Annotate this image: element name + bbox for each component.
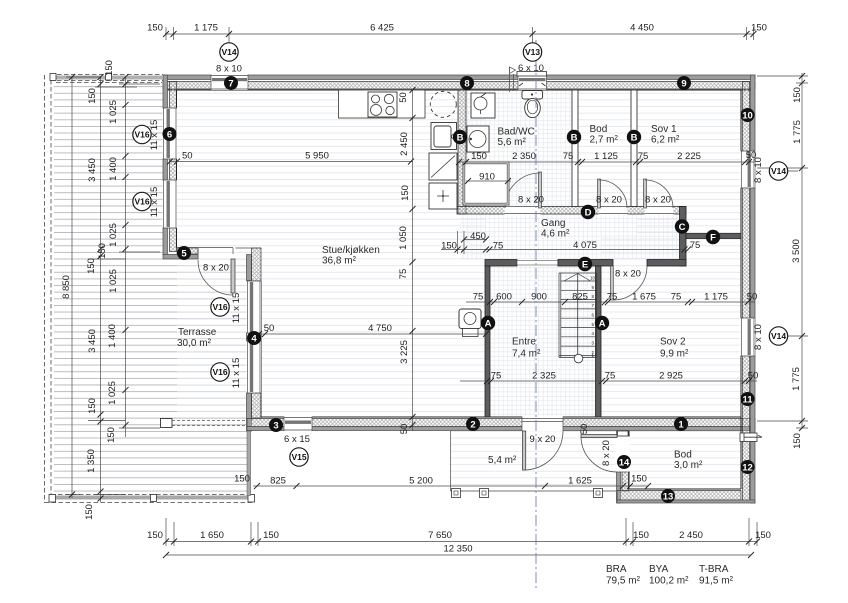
svg-text:Gang: Gang xyxy=(541,218,565,229)
svg-text:7: 7 xyxy=(228,79,233,90)
svg-text:75: 75 xyxy=(607,292,618,303)
svg-text:6 425: 6 425 xyxy=(370,23,394,34)
svg-text:V14: V14 xyxy=(771,331,786,341)
svg-text:50: 50 xyxy=(747,292,758,303)
bottom wall xyxy=(261,416,741,418)
svg-text:825: 825 xyxy=(270,476,286,487)
svg-text:150: 150 xyxy=(147,23,163,34)
svg-text:V14: V14 xyxy=(221,47,236,57)
svg-text:50: 50 xyxy=(748,371,759,382)
terrasse utility box + dashed line xyxy=(161,419,173,428)
svg-text:75: 75 xyxy=(491,371,502,382)
gang tiles xyxy=(460,214,679,259)
numbered markers xyxy=(163,76,755,503)
dashed sink circle xyxy=(430,91,456,117)
svg-text:V16: V16 xyxy=(134,130,149,140)
svg-text:10: 10 xyxy=(590,276,596,281)
svg-text:1 775: 1 775 xyxy=(792,120,803,144)
svg-text:3 450: 3 450 xyxy=(87,158,98,182)
svg-text:1 050: 1 050 xyxy=(398,226,409,250)
svg-text:7,4 m²: 7,4 m² xyxy=(512,349,541,360)
right wall window W2 (8x10) xyxy=(741,318,756,356)
bath basin top xyxy=(471,93,495,118)
toilet xyxy=(522,91,543,100)
svg-text:1: 1 xyxy=(678,420,684,431)
svg-text:3 450: 3 450 xyxy=(87,329,98,353)
svg-text:5,4 m²: 5,4 m² xyxy=(488,455,517,466)
bod2.7 door 8x20 xyxy=(598,179,601,208)
svg-text:2 925: 2 925 xyxy=(659,371,683,382)
svg-text:150: 150 xyxy=(792,433,803,449)
bod3 vent xyxy=(740,433,757,442)
svg-text:5: 5 xyxy=(181,249,187,260)
svg-text:1 400: 1 400 xyxy=(107,324,118,348)
WALLS xyxy=(45,74,756,504)
svg-text:A: A xyxy=(599,319,606,330)
FLOORS xyxy=(54,82,741,494)
svg-text:50: 50 xyxy=(398,92,409,103)
kitchen vertical column x412 xyxy=(412,90,414,431)
terrasse door 8x20 xyxy=(231,259,235,293)
svg-text:5,6 m²: 5,6 m² xyxy=(498,137,527,148)
svg-text:Sov 1: Sov 1 xyxy=(651,124,677,135)
svg-text:2: 2 xyxy=(470,420,475,431)
svg-text:BYA: BYA xyxy=(649,564,669,575)
IW5 gang east wall xyxy=(680,207,687,267)
svg-text:150: 150 xyxy=(234,474,250,485)
MARKERS xyxy=(133,43,788,503)
WINDOWS xyxy=(163,72,756,432)
svg-text:150: 150 xyxy=(84,504,95,520)
IW7 entre north / gang south wall xyxy=(485,260,517,267)
svg-text:8 x 20: 8 x 20 xyxy=(615,269,641,280)
letter markers xyxy=(453,130,720,330)
interior row: 50 | 5950 (y161.5) xyxy=(170,161,413,163)
svg-text:11 x 15: 11 x 15 xyxy=(231,293,242,323)
svg-text:1 350: 1 350 xyxy=(86,449,97,473)
svg-text:75: 75 xyxy=(690,240,701,251)
svg-text:1 650: 1 650 xyxy=(200,530,224,541)
svg-text:11: 11 xyxy=(742,395,753,406)
svg-text:Bod: Bod xyxy=(674,450,692,461)
svg-text:Stue/kjøkken: Stue/kjøkken xyxy=(322,245,380,256)
svg-text:V16: V16 xyxy=(212,367,227,377)
svg-text:75: 75 xyxy=(493,241,504,252)
window 7 top (8x10) xyxy=(211,75,248,91)
svg-text:600: 600 xyxy=(496,292,512,303)
svg-text:910: 910 xyxy=(479,172,495,183)
svg-text:6: 6 xyxy=(167,130,172,141)
svg-text:1 625: 1 625 xyxy=(568,476,592,487)
svg-text:Entre: Entre xyxy=(512,337,536,348)
terrasse deck upper xyxy=(54,82,163,259)
left 8850 column xyxy=(66,77,100,498)
corner piece at marker5 xyxy=(177,248,233,260)
svg-text:2 450: 2 450 xyxy=(679,530,703,541)
row y302 xyxy=(466,301,755,303)
svg-text:9,9 m²: 9,9 m² xyxy=(660,349,689,360)
svg-text:8: 8 xyxy=(464,79,469,90)
svg-text:75: 75 xyxy=(671,292,682,303)
IW6 sov1/sov2 wall xyxy=(686,234,741,239)
svg-text:V13: V13 xyxy=(525,47,540,57)
svg-text:5 950: 5 950 xyxy=(305,151,329,162)
svg-text:4 450: 4 450 xyxy=(630,23,654,34)
top wall xyxy=(163,75,755,80)
svg-text:150: 150 xyxy=(147,530,163,541)
bottom chain row2 xyxy=(166,554,751,556)
svg-text:1 175: 1 175 xyxy=(194,23,218,34)
west wall mullion xyxy=(247,333,262,341)
svg-text:9 x 20: 9 x 20 xyxy=(530,434,556,445)
svg-text:1 675: 1 675 xyxy=(632,292,656,303)
svg-text:V16: V16 xyxy=(212,302,227,312)
terrasse deck lower xyxy=(54,259,247,494)
row y334 xyxy=(259,333,486,335)
svg-text:75: 75 xyxy=(473,292,484,303)
svg-text:7 650: 7 650 xyxy=(428,530,452,541)
bod south wall xyxy=(629,488,741,490)
svg-text:2,7 m²: 2,7 m² xyxy=(590,135,619,146)
west wall bottom block xyxy=(247,393,252,431)
svg-text:150: 150 xyxy=(441,241,457,252)
right wall xyxy=(751,75,756,503)
svg-text:3 500: 3 500 xyxy=(791,239,802,263)
svg-text:91,5 m²: 91,5 m² xyxy=(699,576,734,587)
right wall window W1 (8x10) xyxy=(741,151,756,188)
svg-text:36,8 m²: 36,8 m² xyxy=(322,256,357,267)
stove xyxy=(368,92,397,117)
svg-text:V14: V14 xyxy=(771,166,786,176)
sov1 floor xyxy=(637,90,741,233)
bad/wc door 8x20 xyxy=(539,172,542,208)
svg-text:2 450: 2 450 xyxy=(399,132,410,156)
svg-text:150: 150 xyxy=(400,185,411,201)
svg-text:E: E xyxy=(582,260,588,271)
svg-text:8 x 20: 8 x 20 xyxy=(203,263,229,274)
sov2 floor xyxy=(601,238,741,417)
terrasse borders xyxy=(50,74,163,76)
svg-text:75: 75 xyxy=(605,371,616,382)
svg-text:Bad/WC: Bad/WC xyxy=(498,127,535,138)
stove (stue) xyxy=(459,309,481,329)
svg-text:75: 75 xyxy=(563,151,574,162)
IW4 bod2.7 east wall xyxy=(631,90,637,207)
svg-text:A: A xyxy=(485,319,492,330)
DOORS xyxy=(198,172,673,472)
porch floor xyxy=(450,431,616,491)
svg-text:6 x 10: 6 x 10 xyxy=(518,63,544,74)
west wall window W1 (11x15) xyxy=(247,281,262,333)
bod3 door 8x20 xyxy=(581,435,617,438)
FIXTURES xyxy=(339,67,763,442)
svg-text:1 125: 1 125 xyxy=(594,151,618,162)
svg-text:50: 50 xyxy=(182,151,193,162)
IW3 bad east wall xyxy=(572,90,578,207)
svg-text:5 200: 5 200 xyxy=(409,476,433,487)
kitchen counter top xyxy=(339,90,426,118)
svg-text:C: C xyxy=(679,222,686,233)
svg-text:50: 50 xyxy=(264,323,275,334)
bottom wall window V15 (6x15) xyxy=(284,417,312,432)
sov2 door 8x20 xyxy=(611,266,614,300)
porch outline xyxy=(451,431,617,491)
centerline xyxy=(535,40,537,590)
svg-text:Terrasse: Terrasse xyxy=(178,327,217,338)
washer xyxy=(467,126,489,152)
svg-text:8 x 20: 8 x 20 xyxy=(518,195,544,206)
svg-text:4 750: 4 750 xyxy=(368,323,392,334)
svg-text:1 025: 1 025 xyxy=(108,100,119,124)
svg-text:150: 150 xyxy=(755,530,771,541)
svg-text:150: 150 xyxy=(471,151,487,162)
IW8 entre west wall xyxy=(485,266,490,417)
IW2 gang north wall xyxy=(457,207,686,215)
svg-text:3,0 m²: 3,0 m² xyxy=(674,460,703,471)
svg-text:4: 4 xyxy=(251,334,257,345)
bottom wall porch door opening (9x20) xyxy=(522,417,563,432)
svg-text:1 025: 1 025 xyxy=(108,223,119,247)
svg-text:100,2 m²: 100,2 m² xyxy=(649,576,689,587)
porch door 9x20 xyxy=(523,431,526,470)
svg-text:3: 3 xyxy=(273,421,278,432)
top dimension chain xyxy=(165,27,754,43)
svg-text:8 850: 8 850 xyxy=(61,275,72,299)
svg-text:1 400: 1 400 xyxy=(108,157,119,181)
bottom chain row1 xyxy=(166,518,757,546)
svg-text:4 075: 4 075 xyxy=(573,240,597,251)
IW9 entre east wall xyxy=(596,266,602,417)
svg-text:T-BRA: T-BRA xyxy=(699,564,729,575)
svg-text:2 225: 2 225 xyxy=(677,151,701,162)
svg-text:150: 150 xyxy=(631,474,647,485)
bod 2.7 floor xyxy=(578,90,631,206)
svg-text:B: B xyxy=(571,133,578,144)
svg-text:150: 150 xyxy=(87,88,98,104)
svg-text:12: 12 xyxy=(742,463,753,474)
svg-text:12 350: 12 350 xyxy=(443,544,472,555)
svg-text:1 175: 1 175 xyxy=(704,292,728,303)
entre tiles xyxy=(490,266,595,417)
svg-text:B: B xyxy=(457,133,464,144)
interior row: bathroom top (y162) xyxy=(458,161,755,163)
svg-text:14: 14 xyxy=(619,458,630,469)
svg-text:V15: V15 xyxy=(291,452,306,462)
svg-text:8 x 10: 8 x 10 xyxy=(753,324,764,350)
svg-text:11 x 15: 11 x 15 xyxy=(231,358,242,388)
svg-text:Bod: Bod xyxy=(590,124,608,135)
IW1 bad west wall xyxy=(458,90,466,214)
svg-text:6 x 15: 6 x 15 xyxy=(284,434,310,445)
svg-text:3 225: 3 225 xyxy=(399,340,410,364)
svg-text:8 x 20: 8 x 20 xyxy=(645,195,671,206)
svg-text:10: 10 xyxy=(742,111,753,122)
svg-text:825: 825 xyxy=(572,292,588,303)
svg-text:150: 150 xyxy=(792,87,803,103)
gang row y249.5 xyxy=(441,231,686,254)
svg-text:79,5 m²: 79,5 m² xyxy=(606,576,641,587)
sov1 door 8x20 xyxy=(644,179,647,208)
svg-text:1 025: 1 025 xyxy=(107,381,118,405)
svg-text:Sov 2: Sov 2 xyxy=(660,337,686,348)
svg-text:13: 13 xyxy=(663,492,674,503)
svg-text:50: 50 xyxy=(579,424,590,435)
stairs xyxy=(559,273,597,358)
west living wall: top corner block xyxy=(247,255,252,281)
left wall window W1 (11x15) xyxy=(163,108,178,159)
svg-text:50: 50 xyxy=(399,424,410,435)
svg-text:150: 150 xyxy=(86,258,97,274)
svg-text:900: 900 xyxy=(531,292,547,303)
svg-text:150: 150 xyxy=(751,23,767,34)
left wall window W2 (11x15) xyxy=(163,180,178,228)
svg-text:450: 450 xyxy=(470,231,486,242)
deck right edge strip xyxy=(247,431,251,496)
svg-text:4,6 m²: 4,6 m² xyxy=(541,229,570,240)
svg-text:V16: V16 xyxy=(134,197,149,207)
V window markers xyxy=(133,43,788,466)
svg-text:150: 150 xyxy=(104,60,115,76)
svg-text:75: 75 xyxy=(638,151,649,162)
window V13 top (6x10) xyxy=(518,75,547,91)
left column A xyxy=(88,77,137,502)
shower 910 xyxy=(463,162,509,205)
svg-text:F: F xyxy=(710,233,716,244)
right column xyxy=(757,73,808,428)
west wall window W2 (11x15) xyxy=(247,341,262,393)
svg-text:150: 150 xyxy=(633,530,649,541)
svg-text:1 025: 1 025 xyxy=(108,269,119,293)
svg-text:150: 150 xyxy=(106,427,117,443)
bod west wall xyxy=(617,431,621,503)
left wall xyxy=(163,75,168,255)
svg-text:1 775: 1 775 xyxy=(791,367,802,391)
svg-text:8 x 10: 8 x 10 xyxy=(216,64,242,75)
svg-text:BRA: BRA xyxy=(606,564,627,575)
kitchen column units xyxy=(431,123,457,150)
svg-text:8 x 20: 8 x 20 xyxy=(601,440,612,466)
svg-text:9: 9 xyxy=(681,79,686,90)
svg-text:75: 75 xyxy=(398,269,409,280)
row y381 xyxy=(460,380,757,382)
svg-text:150: 150 xyxy=(97,243,108,259)
row y486 xyxy=(253,485,648,487)
svg-text:150: 150 xyxy=(87,398,98,414)
svg-text:D: D xyxy=(585,208,592,219)
svg-text:2 350: 2 350 xyxy=(512,151,536,162)
bad/wc tiles xyxy=(466,90,572,206)
svg-text:8 x 20: 8 x 20 xyxy=(596,195,622,206)
svg-text:B: B xyxy=(631,133,638,144)
svg-text:30,0 m²: 30,0 m² xyxy=(177,338,212,349)
left column B xyxy=(119,77,160,437)
bod 3.0 floor xyxy=(629,431,741,489)
svg-text:6,2 m²: 6,2 m² xyxy=(651,135,680,146)
chimney/vent at top wall xyxy=(510,67,514,92)
svg-text:150: 150 xyxy=(263,530,279,541)
stue floor xyxy=(177,90,485,417)
